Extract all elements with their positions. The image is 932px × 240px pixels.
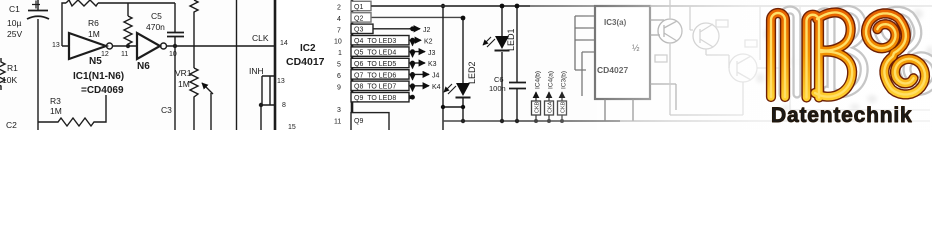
pin 12	[101, 51, 109, 58]
letter B	[807, 12, 853, 97]
wire top rail right	[371, 5, 530, 7]
wire Q9 row	[409, 96, 412, 98]
pin 11	[121, 51, 128, 58]
svg-text:25V: 25V	[7, 29, 22, 39]
IC IC2 CD4017	[275, 0, 352, 136]
svg-text:Q3: Q3	[354, 27, 363, 34]
inverter N6	[137, 33, 275, 59]
svg-text:LED2: LED2	[467, 61, 477, 84]
wire Q8 row	[409, 85, 412, 87]
svg-text:100n: 100n	[489, 84, 506, 93]
capacitor C5	[167, 3, 184, 130]
node carry box (partial)	[351, 113, 389, 133]
wire Q7 row	[409, 73, 412, 75]
IC IC3(a) CD4027	[595, 6, 650, 99]
svg-text:3: 3	[337, 107, 341, 114]
pin 10	[169, 51, 177, 58]
node Q4 box	[351, 36, 409, 45]
svg-text:Datentechnik: Datentechnik	[771, 104, 912, 127]
letter I	[771, 13, 785, 97]
node junction N5-N6	[126, 44, 130, 48]
wire LED2 bottom link	[443, 106, 463, 108]
svg-text:IC2: IC2	[300, 43, 316, 54]
logo IBS Datentechnik	[771, 9, 932, 127]
svg-text:K3: K3	[428, 61, 437, 68]
node Q3 box	[351, 24, 373, 33]
transistor T2	[693, 23, 719, 49]
transistor T3	[729, 54, 757, 82]
wire vertical mid	[236, 0, 238, 130]
svg-text:K2: K2	[424, 38, 433, 45]
wire bottom rail	[443, 120, 620, 122]
label C3	[161, 105, 172, 115]
node Q5 box	[351, 47, 409, 56]
wire Q1 row	[371, 5, 932, 7]
svg-text:J2: J2	[423, 27, 431, 34]
svg-text:14: 14	[280, 40, 288, 47]
resistor R3	[38, 95, 106, 126]
node Q6 box	[351, 58, 409, 67]
ghost letters	[783, 9, 932, 94]
svg-text:1M: 1M	[88, 29, 100, 39]
svg-text:Q8 TO LED7: Q8 TO LED7	[354, 84, 396, 91]
svg-text:10: 10	[334, 39, 342, 46]
svg-text:8: 8	[282, 102, 286, 109]
inverter N5	[62, 33, 137, 59]
node IC3(b) connector	[558, 71, 568, 121]
wire Q4 row	[409, 39, 412, 41]
pin 13	[52, 42, 60, 49]
svg-text:13: 13	[52, 42, 60, 49]
svg-text:Q9 TO LED8: Q9 TO LED8	[354, 95, 396, 102]
node C5/CLK junction	[173, 44, 177, 48]
wire Q6 row	[409, 62, 412, 64]
wire LED2 column	[462, 18, 464, 121]
letter S	[866, 13, 925, 94]
svg-text:INH: INH	[249, 66, 264, 76]
wire Q3 row	[373, 28, 412, 30]
wire C1 column vertical	[37, 0, 39, 130]
node Q9 box	[351, 93, 409, 102]
svg-text:10: 10	[169, 51, 177, 58]
node IC4(b) connector	[532, 71, 542, 121]
svg-text:1: 1	[338, 50, 342, 57]
wire Q5 row	[409, 51, 412, 53]
svg-text:C1: C1	[9, 4, 20, 14]
svg-text:5: 5	[337, 62, 341, 69]
node IC4(a) connector	[545, 71, 555, 121]
svg-text:R3: R3	[50, 96, 61, 106]
svg-text:11: 11	[334, 119, 341, 126]
svg-text:K4: K4	[432, 84, 441, 91]
svg-text:C3: C3	[161, 105, 172, 115]
svg-text:R6: R6	[88, 18, 99, 28]
wire CLK	[252, 33, 269, 43]
label N5	[89, 56, 102, 67]
svg-text:2: 2	[337, 5, 341, 12]
svg-text:Q9: Q9	[354, 118, 363, 125]
svg-text:N5: N5	[89, 56, 102, 67]
label C2	[6, 120, 17, 130]
resistor on top rail	[66, 0, 98, 6]
faded right-hand schematic	[532, 0, 931, 123]
svg-text:11: 11	[121, 51, 128, 58]
svg-text:4: 4	[337, 16, 341, 23]
node Q8 box	[351, 81, 409, 90]
svg-text:N6: N6	[137, 61, 150, 72]
svg-text:C5: C5	[151, 11, 162, 21]
resistor R6	[124, 3, 132, 46]
svg-text:10K: 10K	[2, 75, 17, 85]
svg-text:Q5 TO LED4: Q5 TO LED4	[354, 50, 396, 57]
svg-text:7: 7	[337, 27, 341, 34]
wire Q2 row	[371, 16, 463, 18]
svg-text:CD4017: CD4017	[286, 56, 325, 68]
svg-text:IC1(N1-N6): IC1(N1-N6)	[73, 71, 124, 82]
wire right rails	[620, 0, 930, 121]
svg-text:1M: 1M	[178, 79, 190, 89]
wire long vertical	[442, 6, 444, 130]
node Q7 box	[351, 70, 409, 79]
svg-text:Q1: Q1	[354, 4, 363, 11]
capacitor C6	[516, 6, 518, 121]
wire LED1 column	[501, 6, 503, 121]
label C1	[7, 4, 22, 39]
svg-text:1M: 1M	[50, 106, 62, 116]
resistor R1 (left edge, partially cut)	[0, 58, 5, 90]
svg-text:470n: 470n	[146, 22, 165, 32]
svg-text:C2: C2	[6, 120, 17, 130]
svg-text:C6: C6	[494, 75, 504, 84]
svg-text:9: 9	[337, 84, 341, 91]
svg-text:LED1: LED1	[506, 28, 516, 51]
svg-text:6: 6	[337, 73, 341, 80]
wire INH to pin 13	[261, 76, 275, 130]
svg-text:CLK: CLK	[252, 33, 269, 43]
wire VR1 wiper	[210, 93, 212, 130]
svg-text:R1: R1	[7, 63, 18, 73]
node Q2 box	[351, 13, 371, 22]
transistor T1	[658, 19, 682, 43]
wire branches into IC3(a)	[575, 16, 595, 96]
svg-text:12: 12	[101, 51, 109, 58]
svg-text:10µ: 10µ	[7, 18, 21, 28]
node Q1 box	[351, 1, 371, 10]
svg-text:=CD4069: =CD4069	[81, 85, 124, 96]
background mottling	[756, 8, 932, 111]
wire box outputs	[605, 20, 676, 121]
potentiometer VR1	[190, 68, 198, 130]
svg-text:15: 15	[288, 124, 296, 130]
resistor blocks	[655, 20, 757, 62]
svg-text:J4: J4	[432, 73, 440, 80]
wire oscillator feedback rail	[62, 3, 175, 46]
label IC1	[73, 71, 124, 96]
label N6	[137, 61, 150, 72]
svg-text:Q6 TO LED5: Q6 TO LED5	[354, 61, 396, 68]
capacitor C1	[27, 1, 49, 20]
resistor R4 (top, partially cut)	[190, 0, 198, 68]
LED LED2	[444, 83, 471, 98]
fade overlay	[528, 0, 932, 130]
svg-text:Q2: Q2	[354, 15, 363, 22]
svg-text:J3: J3	[428, 50, 436, 57]
svg-text:13: 13	[277, 78, 285, 85]
svg-text:VR1: VR1	[175, 68, 192, 78]
svg-text:Q7 TO LED6: Q7 TO LED6	[354, 72, 396, 79]
svg-text:Q4 TO LED3: Q4 TO LED3	[354, 38, 396, 45]
LED LED1	[483, 36, 510, 51]
